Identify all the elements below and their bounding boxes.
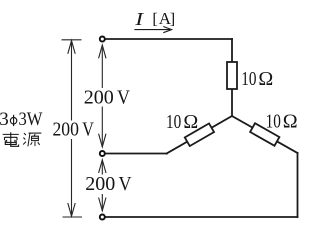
svg-text:200: 200 bbox=[84, 87, 114, 109]
current arrow for I bbox=[134, 27, 171, 33]
wire bottom: right corner to bottom terminal bbox=[105, 216, 297, 218]
svg-text:]: ] bbox=[170, 9, 175, 28]
svg-text:3W: 3W bbox=[19, 109, 43, 130]
wire right side vertical bbox=[297, 153, 299, 217]
resistor R2 10 ohm (left diagonal) bbox=[185, 123, 214, 146]
source label kanji GEN (source) drawn as paths bbox=[23, 133, 41, 146]
svg-text:10: 10 bbox=[241, 68, 256, 90]
terminal middle (source phase b) bbox=[100, 151, 105, 156]
svg-text:I: I bbox=[134, 9, 144, 29]
svg-text:Ω: Ω bbox=[258, 68, 273, 90]
terminal top (source phase a) bbox=[100, 37, 105, 42]
terminal bottom (source phase c) bbox=[100, 215, 105, 220]
resistor R1 10 ohm (vertical) bbox=[227, 62, 237, 89]
svg-text:10: 10 bbox=[166, 111, 181, 133]
wire middle: middle terminal to diagonal corner bbox=[105, 153, 166, 155]
svg-text:V: V bbox=[119, 173, 132, 195]
resistor R3 10 ohm (right diagonal) bbox=[250, 123, 279, 145]
wire left diagonal: star node to middle wire corner bbox=[167, 116, 232, 154]
svg-text:V: V bbox=[117, 87, 130, 109]
svg-text:Ω: Ω bbox=[183, 111, 198, 133]
svg-text:V: V bbox=[82, 118, 94, 140]
svg-text:[: [ bbox=[152, 9, 157, 28]
svg-text:10: 10 bbox=[266, 110, 281, 132]
dimension arrow 200V outer (line-to-line, leftmost) bbox=[62, 40, 83, 217]
source label kanji DEN (electric) drawn as paths bbox=[3, 132, 19, 146]
svg-text:Ω: Ω bbox=[283, 110, 298, 132]
dimension arrow 200V upper (top to middle terminal) bbox=[99, 45, 106, 147]
wire top: top terminal to right corner bbox=[105, 38, 232, 40]
dimension arrow 200V lower (middle to bottom terminal) bbox=[99, 160, 106, 211]
phi symbol bbox=[10, 115, 16, 126]
wire right diagonal: star node to right corner bbox=[232, 116, 298, 153]
wire: resistor R1 bottom to star node bbox=[231, 89, 233, 116]
svg-text:3: 3 bbox=[0, 109, 9, 130]
svg-text:200: 200 bbox=[53, 118, 79, 140]
svg-text:200: 200 bbox=[85, 173, 115, 195]
wire right vertical: corner down to resistor R1 top bbox=[231, 39, 233, 62]
